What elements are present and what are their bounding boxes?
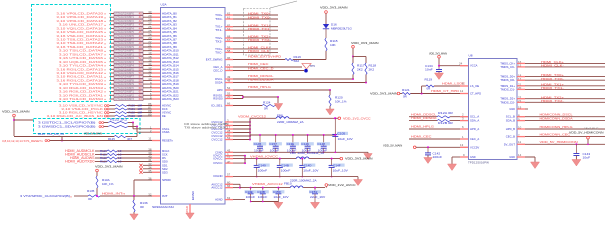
resistor R135 + node HDMI_INTn (20, 189, 168, 201)
svg-text:TMDS_D2-: TMDS_D2- (500, 100, 515, 104)
svg-text:VDD_3V3_MAIN: VDD_3V3_MAIN (370, 91, 398, 95)
svg-text:R126: R126 (38, 133, 45, 136)
svg-text:SD3: SD3 (162, 170, 168, 174)
wire U8 GND left + ground (448, 153, 477, 171)
wire HDMI_TX1- (connector side) (500, 86, 605, 91)
resistor pack + wire + node LCD_DATA row 8 (TSILCD_DATA22) (56, 40, 177, 45)
resistor R119b + wire HDMI_LSOE (422, 77, 480, 90)
resistor R117 (352, 57, 365, 80)
wire SYS_RESETn to pin RESETn (2, 136, 173, 142)
svg-text:0R: 0R (88, 197, 92, 201)
svg-text:RTA1R2W8P9: RTA1R2W8P9 (116, 46, 135, 49)
svg-text:VDD_5V_HDMICONN: VDD_5V_HDMICONN (540, 140, 578, 144)
svg-text:RTA1R2W8P9: RTA1R2W8P9 (116, 83, 135, 86)
svg-text:100nF: 100nF (281, 169, 291, 173)
svg-text:C14F: C14F (333, 163, 341, 167)
testpoint TP5 (302, 64, 316, 73)
resistor pack + wire + node LCD_DATA row 23 (TGILCD_DATA0) (59, 96, 179, 101)
wire CGND + pin (215, 149, 368, 155)
resistor R115 (325, 38, 338, 51)
wire CVCC10 pin bus (211, 118, 251, 141)
svg-text:VDD_3V3_MAIN: VDD_3V3_MAIN (351, 41, 379, 45)
svg-text:3 VT2/SPMC_CLK/GPIO2(B): 3 VT2/SPMC_CLK/GPIO2(B) (20, 194, 70, 198)
svg-text:HPD: HPD (217, 88, 223, 92)
svg-text:10nF: 10nF (425, 67, 433, 71)
svg-text:0R: 0R (403, 95, 407, 99)
power VDD_1V2_CVCC (338, 116, 371, 120)
svg-text:C14E: C14E (245, 190, 253, 194)
power VDD_3V3_MAIN (diode column) (320, 6, 348, 25)
capacitor C145 (253, 135, 266, 153)
wire HDMI_CEC + pin CEC_A (213, 62, 302, 69)
svg-text:HDMI_CLK-: HDMI_CLK- (248, 49, 271, 53)
wire RSVD1 / RSVD0 (213, 92, 279, 101)
svg-text:MBR0520LT1G: MBR0520LT1G (331, 27, 352, 31)
resistor pack + wire + node LCD_DATA row 10 (TSILCD_DATA8) (59, 47, 179, 52)
resistor R12A + wire HDMI_DDSCL (U8 side) (409, 111, 479, 119)
resistor R121 + wire HDMI_CT_HPD (370, 86, 482, 99)
wire HDMICONN_DSCL (506, 113, 605, 119)
svg-text:HDMI_TX0-: HDMI_TX0- (541, 77, 564, 81)
svg-text:GND: GND (509, 107, 515, 111)
svg-text:HDMI_TX1-: HDMI_TX1- (248, 27, 271, 31)
svg-text:HDMICONN_DSDA: HDMICONN_DSDA (540, 116, 574, 120)
svg-text:HPD_B: HPD_B (506, 127, 515, 131)
svg-text:RESETn: RESETn (162, 138, 173, 142)
resistor pull + wire I2C CSDA (38, 125, 169, 135)
IC U8 part number (468, 161, 489, 165)
svg-text:RTA1R2W8P6: RTA1R2W8P6 (116, 35, 135, 38)
svg-text:RTA1R2W8P1: RTA1R2W8P1 (116, 91, 135, 94)
wire HDMI_CLK- (connector side) (500, 64, 605, 69)
wire TMDS HDMI_TX0- (215, 16, 278, 21)
svg-text:TPD12S016PW: TPD12S016PW (468, 161, 489, 165)
svg-text:HPD_A: HPD_A (470, 127, 479, 131)
resistor pack + wire + node LCD_DATA row 18 (RGILCD_DATA10) (56, 77, 179, 82)
resistor pack + wire + node LCD_DATA row 5 (VSILCD_DATA15) (56, 29, 177, 34)
svg-text:HDMI_TX0-: HDMI_TX0- (248, 16, 271, 20)
svg-text:HDMICONN_HPLG: HDMICONN_HPLG (540, 125, 574, 129)
svg-text:CT_HPD: CT_HPD (470, 92, 482, 96)
svg-text:IOGND: IOGND (213, 174, 223, 178)
capacitor C146 (301, 135, 314, 153)
svg-text:22uF_16V: 22uF_16V (310, 195, 325, 199)
svg-text:10uF: 10uF (583, 156, 591, 160)
resistor pack + wire + node LCD_DATA row 0 (VP0LCD_DATA20) (56, 10, 177, 15)
resistor pack + wire + node LCD_DATA row 2 (VP0LCD_DATA18) (56, 18, 177, 23)
svg-text:HDMI_TX1-: HDMI_TX1- (541, 86, 564, 90)
svg-text:RTA1R2W8P5: RTA1R2W8P5 (116, 68, 135, 71)
svg-text:TP5: TP5 (310, 64, 316, 68)
svg-text:VDD_3V3_MAIN: VDD_3V3_MAIN (84, 132, 102, 136)
svg-text:VDD_1V2_CVCC: VDD_1V2_CVCC (343, 116, 371, 120)
wire ID_SEL + resistor R124 (211, 97, 278, 110)
svg-text:R122 2K2: R122 2K2 (110, 117, 128, 121)
svg-text:C157: C157 (269, 142, 277, 146)
callout dashed box TMDS (244, 1, 298, 55)
svg-text:VDD_3V3_MAIN: VDD_3V3_MAIN (345, 157, 373, 161)
svg-text:RTA1R2W8P7: RTA1R2W8P7 (116, 76, 135, 79)
wire TMDS HDMI_TX1+ (215, 23, 278, 28)
svg-text:RTA1R2W8P2: RTA1R2W8P2 (116, 94, 135, 97)
svg-text:C14B: C14B (257, 190, 265, 194)
svg-text:C14B: C14B (281, 163, 289, 167)
resistor pack + wire + node LCD_DATA row 20 (RGILCD_DATA3) (59, 85, 179, 90)
svg-text:GND: GND (509, 155, 515, 159)
wire HDMI_TX1+ (connector side) (500, 82, 605, 87)
svg-text:C151: C151 (310, 190, 318, 194)
wire HDMI_TX2+ (connector side) (500, 95, 605, 100)
svg-text:VDD_1V2_AVCC: VDD_1V2_AVCC (328, 183, 357, 187)
power VDD_3V3_MAIN (IOVCC) (340, 157, 373, 161)
svg-text:U2A: U2A (161, 3, 167, 7)
svg-text:HDMI_CT_HPD: HDMI_CT_HPD (431, 89, 460, 93)
resistor pack + wire + node LCD_DATA row 22 (RGILCD_DATA1) (59, 92, 179, 97)
capacitor C150 (272, 187, 288, 202)
wire HDMI_HPLG + pin HPD (217, 85, 331, 92)
svg-text:AGND: AGND (215, 198, 223, 202)
resistor pack + wire + node LCD_DATA row 17 (RGILCD_DATA11) (56, 73, 179, 78)
capacitor C105 (332, 117, 353, 152)
resistor pack + wire + node LCD_DATA row 9 (TSILCD_DATA21) (56, 44, 177, 49)
wire HDMI_CEC (U8 side) (409, 135, 479, 141)
svg-text:0R: 0R (140, 205, 144, 209)
svg-text:TXC-: TXC- (215, 50, 222, 54)
svg-text:DE: DE (162, 114, 166, 118)
svg-text:HDMI_CLK-: HDMI_CLK- (541, 64, 564, 68)
pin stubs U2 right side (225, 15, 233, 200)
svg-text:HDMI_INTn: HDMI_INTn (102, 191, 125, 195)
svg-text:2K2: 2K2 (369, 68, 375, 72)
svg-text:CEC_D: CEC_D (213, 69, 223, 73)
svg-text:RTA1R2W8P8: RTA1R2W8P8 (116, 79, 135, 82)
svg-text:EXT_SWING: EXT_SWING (206, 58, 223, 62)
svg-text:10K_1%: 10K_1% (335, 100, 347, 104)
svg-text:HDMI_AUDTXD0: HDMI_AUDTXD0 (65, 160, 95, 164)
svg-text:ID_SEL: ID_SEL (211, 104, 222, 108)
capacitor C14E (245, 187, 257, 202)
ferrite bead FB10 + node VHDMI_AVCC12 (240, 178, 325, 187)
svg-text:VHDMI_AVCC12: VHDMI_AVCC12 (252, 182, 283, 186)
capacitor C14B (277, 158, 293, 178)
resistor pack + wire + node LCD_DATA row 4 (VQILCD_DATA16) (56, 25, 177, 30)
capacitor C143 + ground (572, 144, 591, 166)
resistor pack + wire + node LCD_DATA row 12 (UTILCD_DATA6) (59, 55, 179, 60)
svg-text:C105: C105 (338, 132, 346, 136)
capacitor C151 (309, 187, 325, 202)
op-amp U8 level shifter body (469, 54, 518, 160)
svg-text:HDATA_B23: HDATA_B23 (162, 97, 179, 101)
svg-text:2K2: 2K2 (357, 68, 363, 72)
wire AVCC12 pin bus (211, 181, 241, 190)
svg-text:HDMI_EXT5VHPD: HDMI_EXT5VHPD (248, 55, 282, 59)
svg-text:CEC_A: CEC_A (470, 137, 479, 141)
resistor + wire LCD control RGILCD_AC_BIAS_EN (47, 113, 166, 118)
svg-text:VDD_3V3_MAIN: VDD_3V3_MAIN (2, 110, 30, 114)
svg-text:HDMI_TX2-: HDMI_TX2- (541, 99, 564, 103)
svg-text:VDD_5V_HDMICONN: VDD_5V_HDMICONN (569, 131, 604, 135)
resistor R113 + wire audio SD0 (65, 158, 168, 163)
svg-text:R113: R113 (100, 160, 108, 163)
svg-text:SDA_B: SDA_B (506, 119, 515, 123)
svg-text:RTA1R2W8P1: RTA1R2W8P1 (116, 53, 135, 56)
svg-text:220R_100MHZ_2A: 220R_100MHZ_2A (277, 120, 304, 124)
power VDD_3V3_MAIN (left) (2, 110, 33, 137)
svg-text:CAP_10K_5%: CAP_10K_5% (47, 133, 65, 136)
power VDD_3V3_MAIN (U8 VCCA) + capacitor C134 (425, 51, 477, 79)
wire AGND pin (215, 196, 245, 202)
ground (RSVD net) (274, 104, 282, 111)
resistor R110 + wire audio MCLK (65, 148, 169, 153)
resistor R122 value label (110, 117, 128, 121)
resistor pack + wire + node LCD_DATA row 1 (VP0LCD_DATA19) (56, 14, 177, 19)
diode D16 (323, 23, 352, 39)
resistor pack + wire + node LCD_DATA row 15 (RGILCD_DATA13) (56, 66, 179, 71)
svg-text:RTA1R2W8P8: RTA1R2W8P8 (116, 42, 135, 45)
svg-text:EPAD: EPAD (191, 191, 195, 200)
svg-text:10R: 10R (138, 115, 143, 118)
svg-text:RTA1R2W8P3: RTA1R2W8P3 (116, 61, 135, 64)
svg-text:R12B 0R: R12B 0R (438, 121, 453, 125)
resistor R136 + ground (130, 196, 148, 220)
svg-text:TMDS_D1-: TMDS_D1- (500, 87, 515, 91)
svg-text:HDMI_DDSDA: HDMI_DDSDA (411, 116, 438, 120)
resistor + wire LCD control VSILCD_PCLK (61, 106, 167, 111)
no-connect X on pin SD2 (139, 166, 168, 171)
svg-text:TX2-: TX2- (215, 39, 222, 43)
svg-text:10uF_10V: 10uF_10V (273, 195, 288, 199)
IC part number label (152, 205, 174, 209)
ground (CGND rail) (364, 152, 372, 159)
selection box 1 (LCD data group) (32, 5, 111, 102)
resistor + wire LCD control VSILCD_VSYNC (59, 102, 172, 107)
wire HDMI_CLK+ (connector side) (500, 60, 605, 65)
resistor + wire LCD control RGILCD_HSYNC (59, 109, 172, 114)
ferrite bead FB8 + node VDDM_CVCC12 (238, 114, 338, 124)
svg-text:RTA1R2W8P1: RTA1R2W8P1 (116, 16, 135, 19)
wire HDMI_EXT5VHPD + resistor R116 (206, 51, 326, 63)
svg-text:VHDMI_IOVCC: VHDMI_IOVCC (250, 155, 279, 159)
ground (row3 left) (274, 202, 283, 209)
capacitor C14B (257, 187, 269, 202)
svg-text:RSVD0: RSVD0 (213, 97, 222, 101)
wire VDD_5V_HDMICONN + pin 5V_OUT (504, 140, 605, 146)
resistor pack + wire + node LCD_DATA row 19 (TYILCD_DATA9) (59, 81, 179, 86)
svg-text:R135: R135 (87, 189, 95, 193)
wire TMDS HDMI_CLK+ (215, 46, 278, 51)
wire TMDS HDMI_CLK- (215, 49, 278, 54)
wire SPDIF (134, 177, 171, 196)
wire U8 GND right + ground (509, 153, 539, 169)
svg-text:R121: R121 (402, 88, 410, 92)
svg-text:CVCC12: CVCC12 (211, 138, 222, 142)
wire TMDS HDMI_TX0+ (215, 12, 278, 17)
capacitor C14D (299, 158, 318, 178)
resistor pack + wire + node LCD_DATA row 16 (VGILCD_DATA12) (56, 70, 179, 75)
svg-text:RTA1R2W8P4: RTA1R2W8P4 (116, 27, 135, 30)
svg-text:3,10 RGILCD_AC_BIAS_EN: 3,10 RGILCD_AC_BIAS_EN (47, 114, 103, 118)
svg-text:RTA1R2W8P3: RTA1R2W8P3 (116, 98, 135, 101)
pin stubs U8 left side (460, 66, 468, 157)
svg-text:C13E: C13E (287, 142, 295, 146)
svg-text:C145: C145 (254, 142, 262, 146)
svg-text:TMDS_CK-: TMDS_CK- (500, 65, 515, 69)
svg-text:LS_OE: LS_OE (470, 84, 479, 88)
svg-text:RTA1R2W8P0: RTA1R2W8P0 (116, 13, 135, 16)
svg-text:10uF_10V: 10uF_10V (338, 137, 353, 141)
svg-text:R103: R103 (129, 115, 136, 118)
wire HDMI_TX0- (connector side) (500, 77, 605, 82)
svg-text:SII9022ACNU: SII9022ACNU (152, 205, 174, 209)
svg-text:IOVCC: IOVCC (213, 161, 223, 165)
no-connect X on pin SD1 (139, 162, 168, 167)
svg-text:CEC_B: CEC_B (506, 135, 515, 139)
wire HDMI_TX0+ (connector side) (500, 73, 605, 78)
svg-text:SPDIF: SPDIF (162, 178, 171, 182)
svg-text:HDMICONN_CEC: HDMICONN_CEC (540, 132, 572, 136)
svg-text:0R: 0R (264, 106, 268, 110)
svg-text:SDA_A: SDA_A (470, 119, 479, 123)
wire TMDS HDMI_TX2- (215, 38, 278, 43)
capacitor C14F (329, 158, 348, 178)
svg-text:10K: 10K (330, 43, 336, 47)
svg-text:CSDA: CSDA (162, 130, 169, 134)
power VDD_5V_MAIN + capacitor C142 (383, 143, 479, 163)
svg-text:DSDA: DSDA (215, 81, 222, 85)
resistor pack + wire + node LCD_DATA row 21 (RGILCD_DATA2) (59, 88, 179, 93)
svg-text:VCC5V: VCC5V (470, 145, 479, 149)
svg-text:3 I2WSDC1_SDA/GPIO5(B): 3 I2WSDC1_SDA/GPIO5(B) (38, 125, 96, 129)
svg-text:HDMI_TX2-: HDMI_TX2- (248, 38, 271, 42)
svg-text:RTA1R2W8P0: RTA1R2W8P0 (116, 50, 135, 53)
svg-text:220R_100MHZ_2A: 220R_100MHZ_2A (290, 178, 317, 182)
svg-text:VCCA: VCCA (470, 64, 477, 68)
selection box 2 (I2C group) (34, 119, 141, 134)
svg-text:3,8,10,12,13,14 SYS_RESETn: 3,8,10,12,13,14 SYS_RESETn (2, 139, 43, 143)
resistor pack + wire + node LCD_DATA row 3 (UNLCD_DATA17) (59, 21, 177, 26)
svg-text:HDMI_DDSDA: HDMI_DDSDA (248, 78, 275, 82)
ground (C151) (311, 202, 320, 209)
power VDD_5V_HDMICONN (port) (569, 126, 604, 145)
no-connect X on pin SD3 (139, 169, 168, 174)
svg-text:0R: 0R (427, 87, 431, 91)
wire TMDS HDMI_TX1- (215, 27, 278, 32)
wire HDMI_CEC_D + pin CEC_D (213, 67, 304, 73)
svg-text:RTA1R2W8P5: RTA1R2W8P5 (116, 31, 135, 34)
wire HDMI_DDSCL + pin DSCL (215, 74, 354, 81)
note I2C addresses (184, 123, 228, 129)
wire IOVCC pin bus (213, 152, 246, 165)
resistor pack + wire + node LCD_DATA row 14 (TYILCD_DATA4) (59, 62, 179, 67)
wire HDMICONN_CEC (506, 132, 605, 138)
svg-text:C146: C146 (301, 142, 309, 146)
capacitor C148 (317, 135, 330, 153)
power VDD_3V3_MAIN (pull-up pair) (351, 41, 379, 58)
pin stubs U8 right side (517, 63, 525, 157)
capacitor C157 (269, 135, 282, 153)
wire HDMICONN_DSDA (506, 116, 605, 122)
svg-text:10K_1%: 10K_1% (102, 182, 114, 186)
svg-text:10uF_10V: 10uF_10V (333, 169, 348, 173)
svg-text:VDD_3V3_MAIN: VDD_3V3_MAIN (429, 51, 447, 55)
resistor pack + wire + node LCD_DATA row 13 (UQILCD_DATA5) (59, 59, 179, 64)
wire U8 GND stub pin 19 (509, 106, 528, 111)
wire HDMICONN_HPLG (506, 125, 605, 131)
svg-text:R116: R116 (294, 55, 302, 59)
svg-text:10uF_10V: 10uF_10V (303, 169, 318, 173)
svg-text:5V_OUT: 5V_OUT (504, 142, 515, 146)
svg-text:100nF: 100nF (246, 195, 256, 199)
wire IOGND rail + ground (213, 172, 362, 185)
wire HDMI_TX2- (connector side) (500, 99, 605, 104)
wire CVCC12 cap rail (250, 118, 335, 139)
svg-text:100nF: 100nF (258, 195, 268, 199)
svg-text:RTA1R2W8P4: RTA1R2W8P4 (116, 65, 135, 68)
svg-text:TXI slave address: 0x3C: TXI slave address: 0x3C (184, 127, 228, 130)
svg-text:VDD_5V_MAIN: VDD_5V_MAIN (383, 143, 402, 147)
resistor pack + wire + node LCD_DATA row 6 (VSILCD_DATA14) (56, 33, 177, 38)
svg-text:HDMI_CEC: HDMI_CEC (248, 62, 269, 66)
svg-text:3,10 TGILCD_DATA0: 3,10 TGILCD_DATA0 (59, 97, 104, 101)
svg-text:VDD_3V3_MAIN: VDD_3V3_MAIN (320, 6, 348, 10)
svg-text:TMDS_D0-: TMDS_D0- (500, 78, 515, 82)
svg-text:RTA1R2W8P2: RTA1R2W8P2 (116, 20, 135, 23)
op-amp U2 HDMI transmitter body (161, 3, 226, 205)
power VDD_1V2_AVCC (325, 183, 357, 188)
svg-text:TX0-: TX0- (215, 17, 222, 21)
svg-text:220R_100MHZ_1A: 220R_100MHZ_1A (298, 151, 325, 155)
ferrite bead FB9 + node VHDMI_IOVCC (245, 151, 340, 158)
resistor R12B + wire HDMI_DDSDA (U8 side) (409, 116, 479, 125)
capacitor C149 (254, 158, 270, 178)
svg-text:GND: GND (470, 155, 476, 159)
svg-text:100nF: 100nF (433, 155, 443, 159)
svg-text:RTA1R2W8P7: RTA1R2W8P7 (116, 39, 135, 42)
resistor R125 pull-up + power label (14, 132, 137, 142)
resistor R111 + wire audio SCK (65, 151, 168, 156)
svg-text:HDMI_HPLG: HDMI_HPLG (411, 125, 435, 129)
wire HDMI_DDSDA + pin DSDA (215, 78, 367, 85)
svg-text:VDDM_CVCC12: VDDM_CVCC12 (238, 114, 266, 118)
svg-text:VDD_3V3_MAIN: VDD_3V3_MAIN (95, 164, 123, 168)
svg-text:C148: C148 (317, 142, 325, 146)
svg-text:IOVCC: IOVCC (213, 157, 223, 161)
svg-text:RTA1R2W8P3: RTA1R2W8P3 (116, 24, 135, 27)
capacitor C13E (286, 135, 299, 153)
resistor R120 + ground (326, 90, 347, 115)
svg-text:R119: R119 (425, 77, 433, 81)
svg-text:R124: R124 (263, 101, 271, 105)
svg-text:AVCC12: AVCC12 (211, 186, 222, 190)
svg-text:C150: C150 (273, 190, 281, 194)
svg-text:HDMI_CEC_D: HDMI_CEC_D (248, 67, 274, 71)
resistor pack + wire + node LCD_DATA row 7 (TSILCD_DATA23) (56, 36, 177, 41)
ground EPAD (185, 191, 195, 219)
svg-text:C14D: C14D (304, 163, 312, 167)
svg-text:FB9: FB9 (290, 151, 296, 155)
svg-text:C149: C149 (258, 163, 266, 167)
wire TMDS HDMI_TX2+ (215, 35, 278, 40)
svg-text:RTA1R2W8P2: RTA1R2W8P2 (116, 57, 135, 60)
resistor pull + wire I2C CSCL (38, 121, 170, 131)
svg-text:HDMI_HPLG: HDMI_HPLG (248, 85, 272, 89)
wire HDMI_HPLG (U8 side) (409, 125, 479, 131)
resistor pack + wire + node LCD_DATA row 11 (TSILCD_DATA7) (59, 51, 179, 56)
power VDD_3V3_MAIN (R13A pull-up) (95, 164, 123, 196)
wire cap row3 ground rail (250, 201, 279, 203)
svg-text:INT: INT (162, 194, 168, 198)
svg-text:RTA1R2W8P6: RTA1R2W8P6 (116, 72, 135, 75)
